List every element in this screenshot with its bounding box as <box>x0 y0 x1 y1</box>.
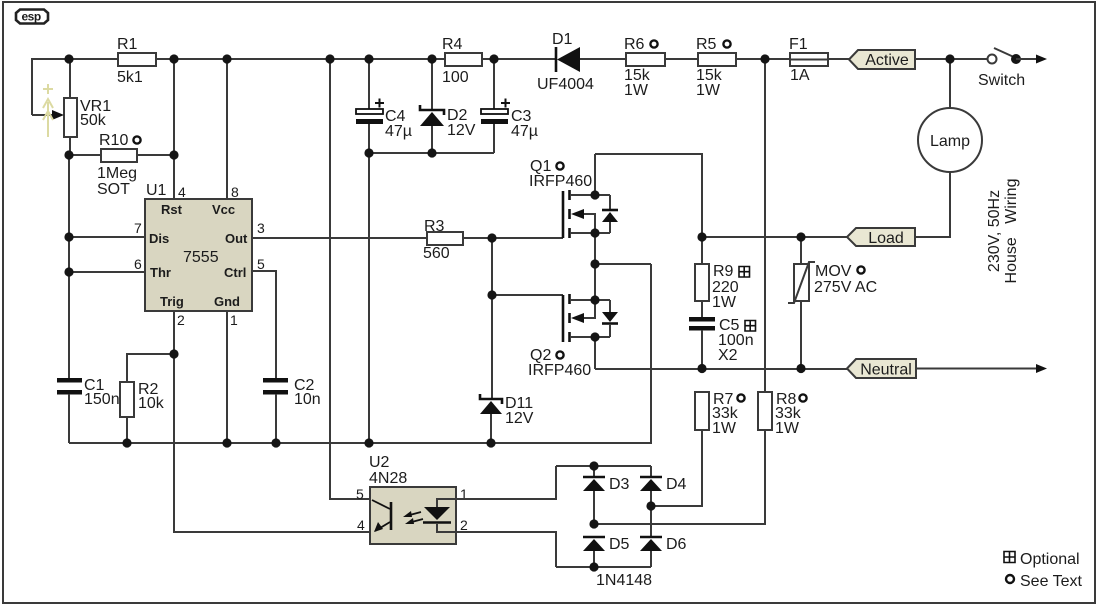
svg-text:Switch: Switch <box>978 72 1025 89</box>
wire load rail <box>702 236 847 238</box>
wire U2 pin2 to bridge <box>456 532 556 567</box>
svg-text:Gnd: Gnd <box>214 294 240 309</box>
svg-text:10n: 10n <box>294 391 321 408</box>
svg-text:1W: 1W <box>696 82 721 99</box>
legend see text <box>1006 573 1083 590</box>
zener D2 <box>420 59 476 153</box>
wire left column <box>68 155 70 378</box>
svg-text:1W: 1W <box>775 420 800 437</box>
svg-text:6: 6 <box>134 256 142 272</box>
wire R3 to gates <box>463 238 563 399</box>
optocoupler U2 4N28 <box>356 454 468 544</box>
wire to U2 pin5 <box>330 59 370 499</box>
wire neutral arrow <box>916 364 1047 373</box>
svg-text:Vcc: Vcc <box>212 202 235 217</box>
svg-text:esp: esp <box>22 10 41 24</box>
svg-text:50k: 50k <box>80 112 107 129</box>
wire cap bottom rail <box>369 152 494 154</box>
wire Vcc drop <box>226 59 228 199</box>
svg-text:F1: F1 <box>789 36 808 53</box>
ground rail <box>69 264 651 443</box>
svg-text:Dis: Dis <box>149 231 169 246</box>
svg-text:D3: D3 <box>609 476 630 493</box>
svg-text:Rst: Rst <box>161 202 183 217</box>
lamp <box>918 59 982 237</box>
potentiometer VR1 <box>32 59 111 155</box>
resistor R1 <box>117 36 156 86</box>
svg-text:47µ: 47µ <box>511 123 538 140</box>
svg-text:U2: U2 <box>369 454 390 471</box>
wire Gnd pin1 <box>226 311 228 443</box>
ESP logo <box>16 10 48 24</box>
svg-text:1Meg: 1Meg <box>97 165 137 182</box>
svg-text:12V: 12V <box>505 410 534 427</box>
svg-text:4: 4 <box>357 517 365 533</box>
svg-text:12V: 12V <box>447 122 476 139</box>
svg-text:47µ: 47µ <box>385 123 412 140</box>
wire sources midpoint to ground column <box>595 263 651 265</box>
tag Active <box>849 50 915 69</box>
capacitor C2 <box>263 377 321 443</box>
svg-text:1A: 1A <box>790 67 810 84</box>
svg-text:100: 100 <box>442 69 469 86</box>
wire Ctrl pin5 to C2 <box>252 271 276 378</box>
svg-text:Load: Load <box>868 230 904 247</box>
svg-text:UF4004: UF4004 <box>537 76 594 93</box>
svg-text:1W: 1W <box>624 82 649 99</box>
svg-text:8: 8 <box>231 184 239 200</box>
svg-text:1N4148: 1N4148 <box>596 572 652 589</box>
svg-text:U1: U1 <box>146 182 167 199</box>
resistor R2 <box>120 354 174 443</box>
svg-text:Optional: Optional <box>1020 551 1080 568</box>
wire Q1 drain to load rail <box>595 154 702 237</box>
resistor R7 <box>651 391 745 506</box>
resistor R5 <box>696 36 736 99</box>
diode D1 UF4004 <box>537 31 594 93</box>
svg-text:1W: 1W <box>712 294 737 311</box>
wire bridge bottom rail <box>556 566 651 568</box>
svg-text:Active: Active <box>865 52 909 69</box>
wire Trig pin2 to U2 pin4 <box>174 311 370 532</box>
wire bridge top rail <box>556 465 651 467</box>
adjust arrow (pale) <box>43 84 53 137</box>
svg-text:4: 4 <box>178 184 186 200</box>
resistor R10 <box>69 132 174 198</box>
wire R8 sense drop <box>764 59 766 392</box>
legend optional <box>1004 551 1080 568</box>
svg-text:R5: R5 <box>696 36 717 53</box>
diode D5 <box>583 536 630 567</box>
svg-text:560: 560 <box>423 245 450 262</box>
svg-text:D4: D4 <box>666 476 687 493</box>
svg-text:Lamp: Lamp <box>930 133 970 150</box>
svg-text:7555: 7555 <box>183 249 219 266</box>
wire Rst drop <box>173 59 175 199</box>
resistor R6 <box>624 36 665 99</box>
svg-text:Trig: Trig <box>160 294 184 309</box>
svg-text:275V AC: 275V AC <box>814 279 877 296</box>
svg-text:D5: D5 <box>609 536 630 553</box>
wire U2 pin1 to bridge <box>456 466 556 499</box>
wire neutral rail <box>595 368 847 370</box>
svg-text:4N28: 4N28 <box>369 470 407 487</box>
wire Out pin3 to R3 <box>252 237 427 239</box>
wire top rail <box>32 59 988 115</box>
svg-text:Neutral: Neutral <box>860 362 912 379</box>
svg-text:5: 5 <box>356 486 364 502</box>
diode D3 <box>583 466 630 524</box>
svg-text:D1: D1 <box>552 31 573 48</box>
wire Thr pin6 <box>69 271 145 273</box>
diode D6 <box>640 536 687 567</box>
svg-text:See Text: See Text <box>1020 573 1083 590</box>
svg-text:MOV: MOV <box>815 263 852 280</box>
svg-text:IRFP460: IRFP460 <box>529 173 592 190</box>
svg-text:R3: R3 <box>424 218 445 235</box>
svg-text:Thr: Thr <box>150 265 171 280</box>
svg-text:230V, 50HzHouse Wiring: 230V, 50HzHouse Wiring <box>986 179 1020 284</box>
svg-text:1: 1 <box>230 312 238 328</box>
IC U1 7555 <box>134 182 265 328</box>
svg-text:R9: R9 <box>713 263 734 280</box>
svg-text:SOT: SOT <box>97 181 130 198</box>
svg-text:2: 2 <box>177 312 185 328</box>
svg-text:5k1: 5k1 <box>117 69 143 86</box>
resistor R3 <box>423 218 463 262</box>
switch <box>978 48 1047 89</box>
resistor R4 <box>442 36 482 86</box>
capacitor C5 <box>689 301 756 369</box>
svg-text:5: 5 <box>257 256 265 272</box>
capacitor C1 <box>57 377 120 443</box>
varistor MOV <box>788 237 877 369</box>
svg-text:Ctrl: Ctrl <box>224 265 246 280</box>
wire Dis pin7 <box>69 236 145 238</box>
capacitor C3 <box>481 59 538 153</box>
diode D4 <box>640 466 687 537</box>
svg-text:X2: X2 <box>718 347 738 364</box>
svg-text:7: 7 <box>134 220 142 236</box>
svg-text:3: 3 <box>257 220 265 236</box>
svg-text:R6: R6 <box>624 36 645 53</box>
capacitor C4 <box>356 59 412 443</box>
fuse F1 <box>789 36 828 84</box>
svg-text:R10: R10 <box>99 132 128 149</box>
svg-text:150n: 150n <box>84 391 120 408</box>
transistor Q1 IRFP460 <box>529 154 618 264</box>
svg-text:10k: 10k <box>138 395 165 412</box>
tag Load <box>847 228 915 247</box>
resistor R8 <box>594 391 807 524</box>
svg-text:2: 2 <box>460 517 468 533</box>
svg-text:Out: Out <box>225 231 248 246</box>
svg-text:R1: R1 <box>117 36 138 53</box>
svg-text:D6: D6 <box>666 536 687 553</box>
transistor Q2 IRFP460 <box>528 264 618 379</box>
zener D11 <box>480 394 534 443</box>
svg-text:1W: 1W <box>712 420 737 437</box>
svg-text:R4: R4 <box>442 36 463 53</box>
wire load to lamp <box>915 172 950 237</box>
svg-text:IRFP460: IRFP460 <box>528 362 591 379</box>
resistor R9 <box>695 237 750 311</box>
tag Neutral <box>847 359 916 379</box>
